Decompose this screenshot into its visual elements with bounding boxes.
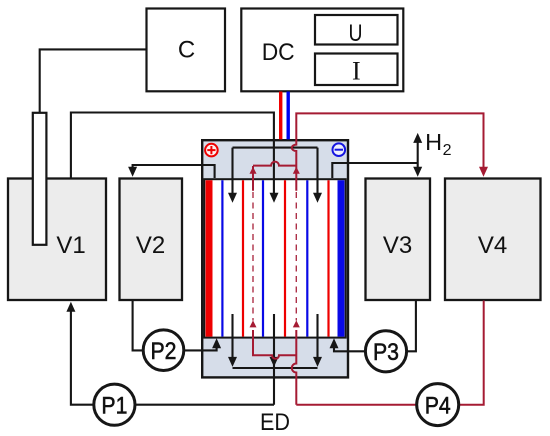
cathode (blue electrode) xyxy=(338,180,345,336)
tank V3 xyxy=(366,179,431,301)
arrow diluate outlet left xyxy=(228,357,237,367)
arrow into V4 top xyxy=(479,167,488,177)
arrow concentrate out right xyxy=(293,167,300,174)
arrow concentrate in left xyxy=(250,320,257,327)
ED stack inner cell box xyxy=(204,179,346,337)
minus terminal symbol xyxy=(333,143,346,156)
pipe H2 vent xyxy=(417,141,419,163)
pipe stack bottom to pump P1 and on to tank V1 xyxy=(71,310,274,405)
svg-text:P4: P4 xyxy=(425,393,451,420)
pipe concentrate top manifold (dark red) xyxy=(253,162,296,191)
DC power supply box xyxy=(241,9,403,92)
arrow H2 up xyxy=(413,133,422,143)
pump P3 xyxy=(365,331,406,372)
membrane M6 xyxy=(327,180,329,336)
svg-text:U: U xyxy=(349,20,363,47)
pipe anode rinse outlet stack to V2 xyxy=(133,165,215,178)
tank V4 xyxy=(445,179,541,301)
pump P1 xyxy=(94,384,135,425)
pipe stack top manifold xyxy=(233,148,318,195)
wire DC positive (red) xyxy=(279,92,282,140)
svg-text:P1: P1 xyxy=(101,393,127,420)
pump P4 xyxy=(417,384,459,426)
pump P2 xyxy=(143,330,184,371)
arrow diluate outlet right xyxy=(313,357,322,367)
conductivity probe xyxy=(33,113,47,245)
svg-text:P2: P2 xyxy=(151,338,177,365)
controller C box xyxy=(147,9,226,92)
pipe cathode rinse outlet stack to junction xyxy=(332,163,417,178)
pipe V3 bottom via pump P3 to stack cathode compartment xyxy=(334,301,416,352)
svg-text:V3: V3 xyxy=(383,232,412,259)
membrane M1 xyxy=(221,180,223,336)
ammeter I box xyxy=(315,54,398,86)
pipe V2 bottom via pump P2 to stack anode compartment xyxy=(133,301,217,351)
wire probe cable to controller C xyxy=(40,49,146,112)
pipe P4 line to stack (dark red) xyxy=(296,404,437,406)
svg-text:V1: V1 xyxy=(56,232,85,259)
anode (red electrode) xyxy=(206,180,213,336)
membrane M3 xyxy=(262,180,264,336)
pipe diluate feed V1 to stack manifold xyxy=(71,113,274,196)
svg-text:H2: H2 xyxy=(425,129,451,159)
concentrate channel dashed line left xyxy=(252,192,254,321)
pipe concentrate bottom feed from P4 (dark red) xyxy=(253,330,296,405)
membrane M2 xyxy=(242,180,244,336)
svg-text:P3: P3 xyxy=(373,339,399,366)
pipe junction down to V3 top xyxy=(417,163,419,169)
tank V2 xyxy=(120,179,183,301)
wire DC negative (blue) xyxy=(287,92,290,140)
svg-text:V2: V2 xyxy=(136,232,165,259)
voltmeter U box xyxy=(315,15,398,45)
arrow into anode compartment xyxy=(212,338,221,348)
svg-text:C: C xyxy=(178,37,195,64)
arrow concentrate in right xyxy=(293,320,300,327)
pipe concentrate riser stack to V4 (dark red) xyxy=(292,113,484,190)
tank V1 xyxy=(8,179,106,301)
arrow into V1 bottom xyxy=(66,302,75,312)
pipe V4 bottom to pump P4 (dark red) xyxy=(438,301,484,405)
svg-text:V4: V4 xyxy=(478,232,507,259)
arrow into cathode compartment xyxy=(330,338,339,348)
membrane M5 xyxy=(306,180,308,336)
arrow into V3 top xyxy=(413,167,422,177)
svg-text:DC: DC xyxy=(262,39,295,66)
ED stack body xyxy=(202,140,348,377)
arrow diluate outlet center xyxy=(270,357,279,367)
svg-text:I: I xyxy=(352,56,361,85)
pipe diluate collector xyxy=(233,367,318,369)
membrane M4 xyxy=(284,180,286,336)
plus terminal symbol xyxy=(205,144,218,157)
arrow concentrate out left xyxy=(250,167,257,174)
pipe diluate cell outlets xyxy=(233,314,318,405)
concentrate channel dashed line right xyxy=(295,192,297,321)
svg-text:ED: ED xyxy=(260,409,290,436)
arrow into V2 top xyxy=(128,167,137,177)
arrow manifold left cell xyxy=(228,193,237,203)
arrow manifold right cell xyxy=(313,193,322,203)
arrow diluate feed center cell xyxy=(270,193,279,203)
